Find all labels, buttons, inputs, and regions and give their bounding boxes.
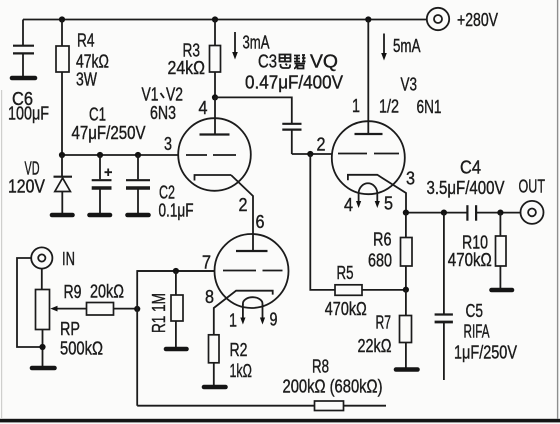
svg-text:470kΩ: 470kΩ xyxy=(325,298,367,319)
capacitor C1 xyxy=(92,155,112,214)
V1b heater arc xyxy=(243,297,263,305)
wire V1a anode lead xyxy=(214,97,216,134)
ground C6 xyxy=(12,76,35,81)
svg-text:R5: R5 xyxy=(337,262,354,283)
ground RP xyxy=(32,366,55,371)
node top-left junction R4 xyxy=(59,16,65,22)
wire bottom feedback rail xyxy=(137,405,386,407)
svg-text:1/2: 1/2 xyxy=(379,96,399,117)
resistor R5 xyxy=(310,154,405,295)
svg-text:7: 7 xyxy=(202,252,211,273)
capacitor C2 xyxy=(126,155,150,214)
wire V3 anode lead xyxy=(367,20,369,135)
node R1 junction xyxy=(173,268,179,274)
wire output line xyxy=(406,212,521,214)
svg-text:3mA: 3mA xyxy=(243,32,270,53)
tube V3 envelope xyxy=(332,121,405,194)
svg-text:5mA: 5mA xyxy=(393,35,421,56)
svg-text:1: 1 xyxy=(352,95,360,116)
node R10 junction xyxy=(497,210,503,216)
ground C1 xyxy=(90,213,111,218)
node top junction V3 anode xyxy=(365,16,371,22)
resistor R9 xyxy=(87,303,138,316)
terminal OUT xyxy=(521,201,544,224)
ground R7 xyxy=(396,367,418,372)
svg-text:500kΩ: 500kΩ xyxy=(60,338,103,359)
ground R2 xyxy=(204,385,226,390)
V3 grid dashed xyxy=(338,153,399,155)
arrow 5mA current xyxy=(381,34,387,61)
resistor R2 xyxy=(209,335,220,385)
svg-text:R6: R6 xyxy=(373,229,392,250)
V3 anode plate xyxy=(355,133,383,135)
resistor R10 xyxy=(496,213,507,288)
svg-text:R2: R2 xyxy=(230,339,248,360)
svg-text:2: 2 xyxy=(317,134,326,155)
svg-text:RIFA: RIFA xyxy=(464,321,490,342)
arrow 3mA current xyxy=(232,32,238,60)
node VD junction xyxy=(59,152,65,158)
ground R10 xyxy=(492,288,513,293)
svg-text:9: 9 xyxy=(270,309,278,330)
svg-text:R8: R8 xyxy=(312,356,329,377)
svg-text:1kΩ: 1kΩ xyxy=(230,360,253,381)
node C5 junction xyxy=(441,210,447,216)
svg-text:100μF: 100μF xyxy=(8,103,49,124)
svg-text:8: 8 xyxy=(205,286,214,307)
svg-text:200kΩ (680kΩ): 200kΩ (680kΩ) xyxy=(283,376,383,397)
diode VD xyxy=(54,155,73,214)
svg-text:C4: C4 xyxy=(460,157,481,178)
capacitor C6 xyxy=(13,20,34,77)
wire feedback loop left xyxy=(137,271,214,406)
svg-text:120V: 120V xyxy=(8,176,46,197)
V3 cathode and lead to output node xyxy=(348,175,406,211)
label V1 V2 xyxy=(142,84,184,105)
op tube V1 first triode envelope xyxy=(178,118,251,191)
ground VD xyxy=(52,213,73,218)
resistor R6 xyxy=(401,213,413,290)
svg-text:R4: R4 xyxy=(77,30,95,51)
wire mid rail to V1 grid xyxy=(62,154,178,156)
resistor R7 xyxy=(400,290,412,368)
svg-text:47μF/250V: 47μF/250V xyxy=(72,122,147,143)
svg-text:4: 4 xyxy=(199,97,208,118)
node 2 junction xyxy=(307,151,313,157)
svg-text:6N3: 6N3 xyxy=(150,102,176,123)
V1b cathode and lead to R2 xyxy=(214,291,273,335)
svg-text:+280V: +280V xyxy=(457,9,498,30)
svg-text:3.5μF/400V: 3.5μF/400V xyxy=(427,177,506,198)
wire IN jack to RP top xyxy=(41,269,43,290)
wire C3 to node 2 and V3 grid xyxy=(292,153,332,155)
capacitor C5 xyxy=(435,213,453,380)
svg-text:6N1: 6N1 xyxy=(417,96,442,117)
svg-text:6: 6 xyxy=(256,211,265,232)
svg-text:0.1μF: 0.1μF xyxy=(159,200,194,221)
label 1/2 6N1 xyxy=(379,96,442,118)
svg-text:R9: R9 xyxy=(64,281,82,302)
svg-text:1μF/250V: 1μF/250V xyxy=(454,342,518,363)
svg-text:3: 3 xyxy=(164,133,172,154)
svg-text:VQ: VQ xyxy=(310,51,338,72)
svg-text:1: 1 xyxy=(229,310,237,331)
svg-text:680: 680 xyxy=(368,250,392,271)
svg-text:3: 3 xyxy=(406,168,415,189)
node RP bottom junction xyxy=(39,344,45,350)
svg-text:2: 2 xyxy=(239,194,248,215)
node top junction R3 xyxy=(212,16,218,22)
V3 heater pin arrows xyxy=(356,193,380,208)
svg-text:20kΩ: 20kΩ xyxy=(90,281,124,302)
V3 heater arc xyxy=(359,183,378,192)
V1a cathode xyxy=(195,175,232,181)
glyph Bi (CJK) xyxy=(294,55,306,69)
wire IN jack shield to RP bottom xyxy=(17,258,43,347)
svg-text:RP: RP xyxy=(60,318,80,339)
V1b grid dashed xyxy=(223,270,283,272)
resistor R1 xyxy=(171,271,183,347)
node output junction xyxy=(403,210,409,216)
svg-text:R1 1M: R1 1M xyxy=(148,293,169,333)
svg-text:V3: V3 xyxy=(401,74,418,95)
node R9 junction xyxy=(134,306,140,312)
svg-text:OUT: OUT xyxy=(519,176,546,197)
svg-text:0.47μF/400V: 0.47μF/400V xyxy=(245,72,344,93)
wire V1b grid lead xyxy=(137,270,214,272)
resistor R4 xyxy=(56,20,69,156)
svg-text:C5: C5 xyxy=(466,300,484,321)
capacitor C4 xyxy=(467,205,476,221)
resistor R3 xyxy=(210,20,221,98)
svg-text:470kΩ: 470kΩ xyxy=(448,249,492,270)
V1b anode plate xyxy=(236,250,268,252)
svg-text:5: 5 xyxy=(384,193,393,214)
label C3 SiBi VQ xyxy=(258,51,338,72)
resistor R8 xyxy=(315,401,344,411)
svg-text:IN: IN xyxy=(62,248,75,269)
tube V1 second triode envelope xyxy=(215,234,289,308)
V1a grid dashed xyxy=(186,154,236,156)
V1a anode plate xyxy=(200,133,230,135)
wire V1a cathode to V1b anode coupling xyxy=(231,175,253,251)
potentiometer RP xyxy=(36,290,50,368)
svg-text:4: 4 xyxy=(344,194,353,215)
node A junction below R3 xyxy=(212,94,218,100)
svg-text:24kΩ: 24kΩ xyxy=(168,57,206,78)
V1b heater pin arrows xyxy=(240,305,265,325)
svg-text:3W: 3W xyxy=(76,69,97,90)
glyph Si (CJK) xyxy=(280,55,291,69)
node C2 junction xyxy=(135,152,141,158)
capacitor C3 xyxy=(282,124,301,154)
svg-text:C3: C3 xyxy=(258,51,277,72)
page bottom border xyxy=(0,419,560,423)
wire node A to C3 xyxy=(215,97,292,123)
wire top +280V rail xyxy=(23,19,427,21)
terminal IN xyxy=(31,247,52,268)
node R5 R6 R7 junction xyxy=(403,287,409,293)
ground R1 xyxy=(166,347,187,352)
terminal +280V xyxy=(427,8,449,30)
node C1 junction xyxy=(97,152,103,158)
svg-text:22kΩ: 22kΩ xyxy=(358,335,392,356)
RP wiper arrow xyxy=(50,306,86,312)
svg-text:R7: R7 xyxy=(376,312,392,333)
ground C2 xyxy=(128,213,149,218)
